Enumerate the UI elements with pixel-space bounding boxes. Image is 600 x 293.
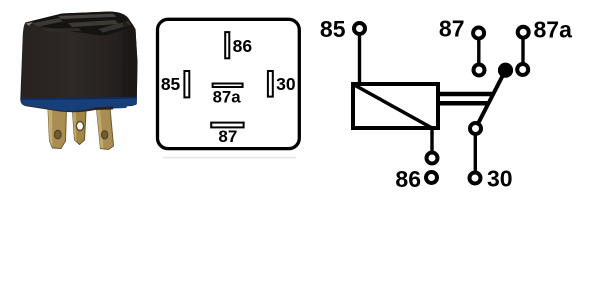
terminal 85 [354,23,365,34]
contact 87a [517,64,528,75]
wire terminal 87a to contact 87a [521,36,524,66]
wire terminal 87 to contact 87 [477,36,480,66]
svg-text:30: 30 [487,165,513,191]
terminal 87a [518,27,529,38]
actuation linkage lower line [440,101,490,106]
coil diagonal [354,85,433,129]
svg-text:87a: 87a [534,16,573,42]
relay photo body [20,12,137,113]
relay photo pin left [48,108,67,149]
coil contact node 86 [427,153,438,164]
armature pivot node [470,123,481,134]
pin slot 87a [213,84,243,88]
svg-text:87: 87 [439,16,465,42]
wire terminal 85 to coil [358,33,361,83]
relay photo pin center [73,110,87,145]
terminal 87 [473,28,484,39]
pin slot 87 [211,123,243,128]
faint shadow line under relay base diagram [163,157,296,159]
pin slot 85 [184,71,189,97]
pin slot 86 [225,32,229,58]
terminal 86 [426,172,437,183]
wire pivot to terminal 30 [474,134,477,172]
relay photo blue band shading [20,97,136,100]
relay photo top face glints [26,14,131,33]
relay base outline (pinout diagram) [158,19,300,148]
terminal 30 [470,173,481,184]
pin slot 30 [268,71,273,97]
armature (movable contact arm) [476,70,506,128]
svg-text:86: 86 [233,36,253,56]
relay photo top face [25,12,134,36]
coil K1 [353,84,438,128]
relay photo blue band [20,97,136,111]
svg-text:85: 85 [320,16,346,42]
relay photo pin right [97,108,114,150]
svg-text:85: 85 [161,74,181,94]
svg-text:87a: 87a [213,87,242,106]
wire coil to terminal 86 [430,128,433,156]
svg-text:30: 30 [276,74,296,94]
contact 87 [474,65,485,76]
actuation linkage upper line [440,92,494,97]
relay photo right face shade [122,20,138,101]
svg-text:86: 86 [395,166,421,192]
svg-text:87: 87 [218,127,237,146]
armature contact junction at 87a (closed) [498,63,513,78]
